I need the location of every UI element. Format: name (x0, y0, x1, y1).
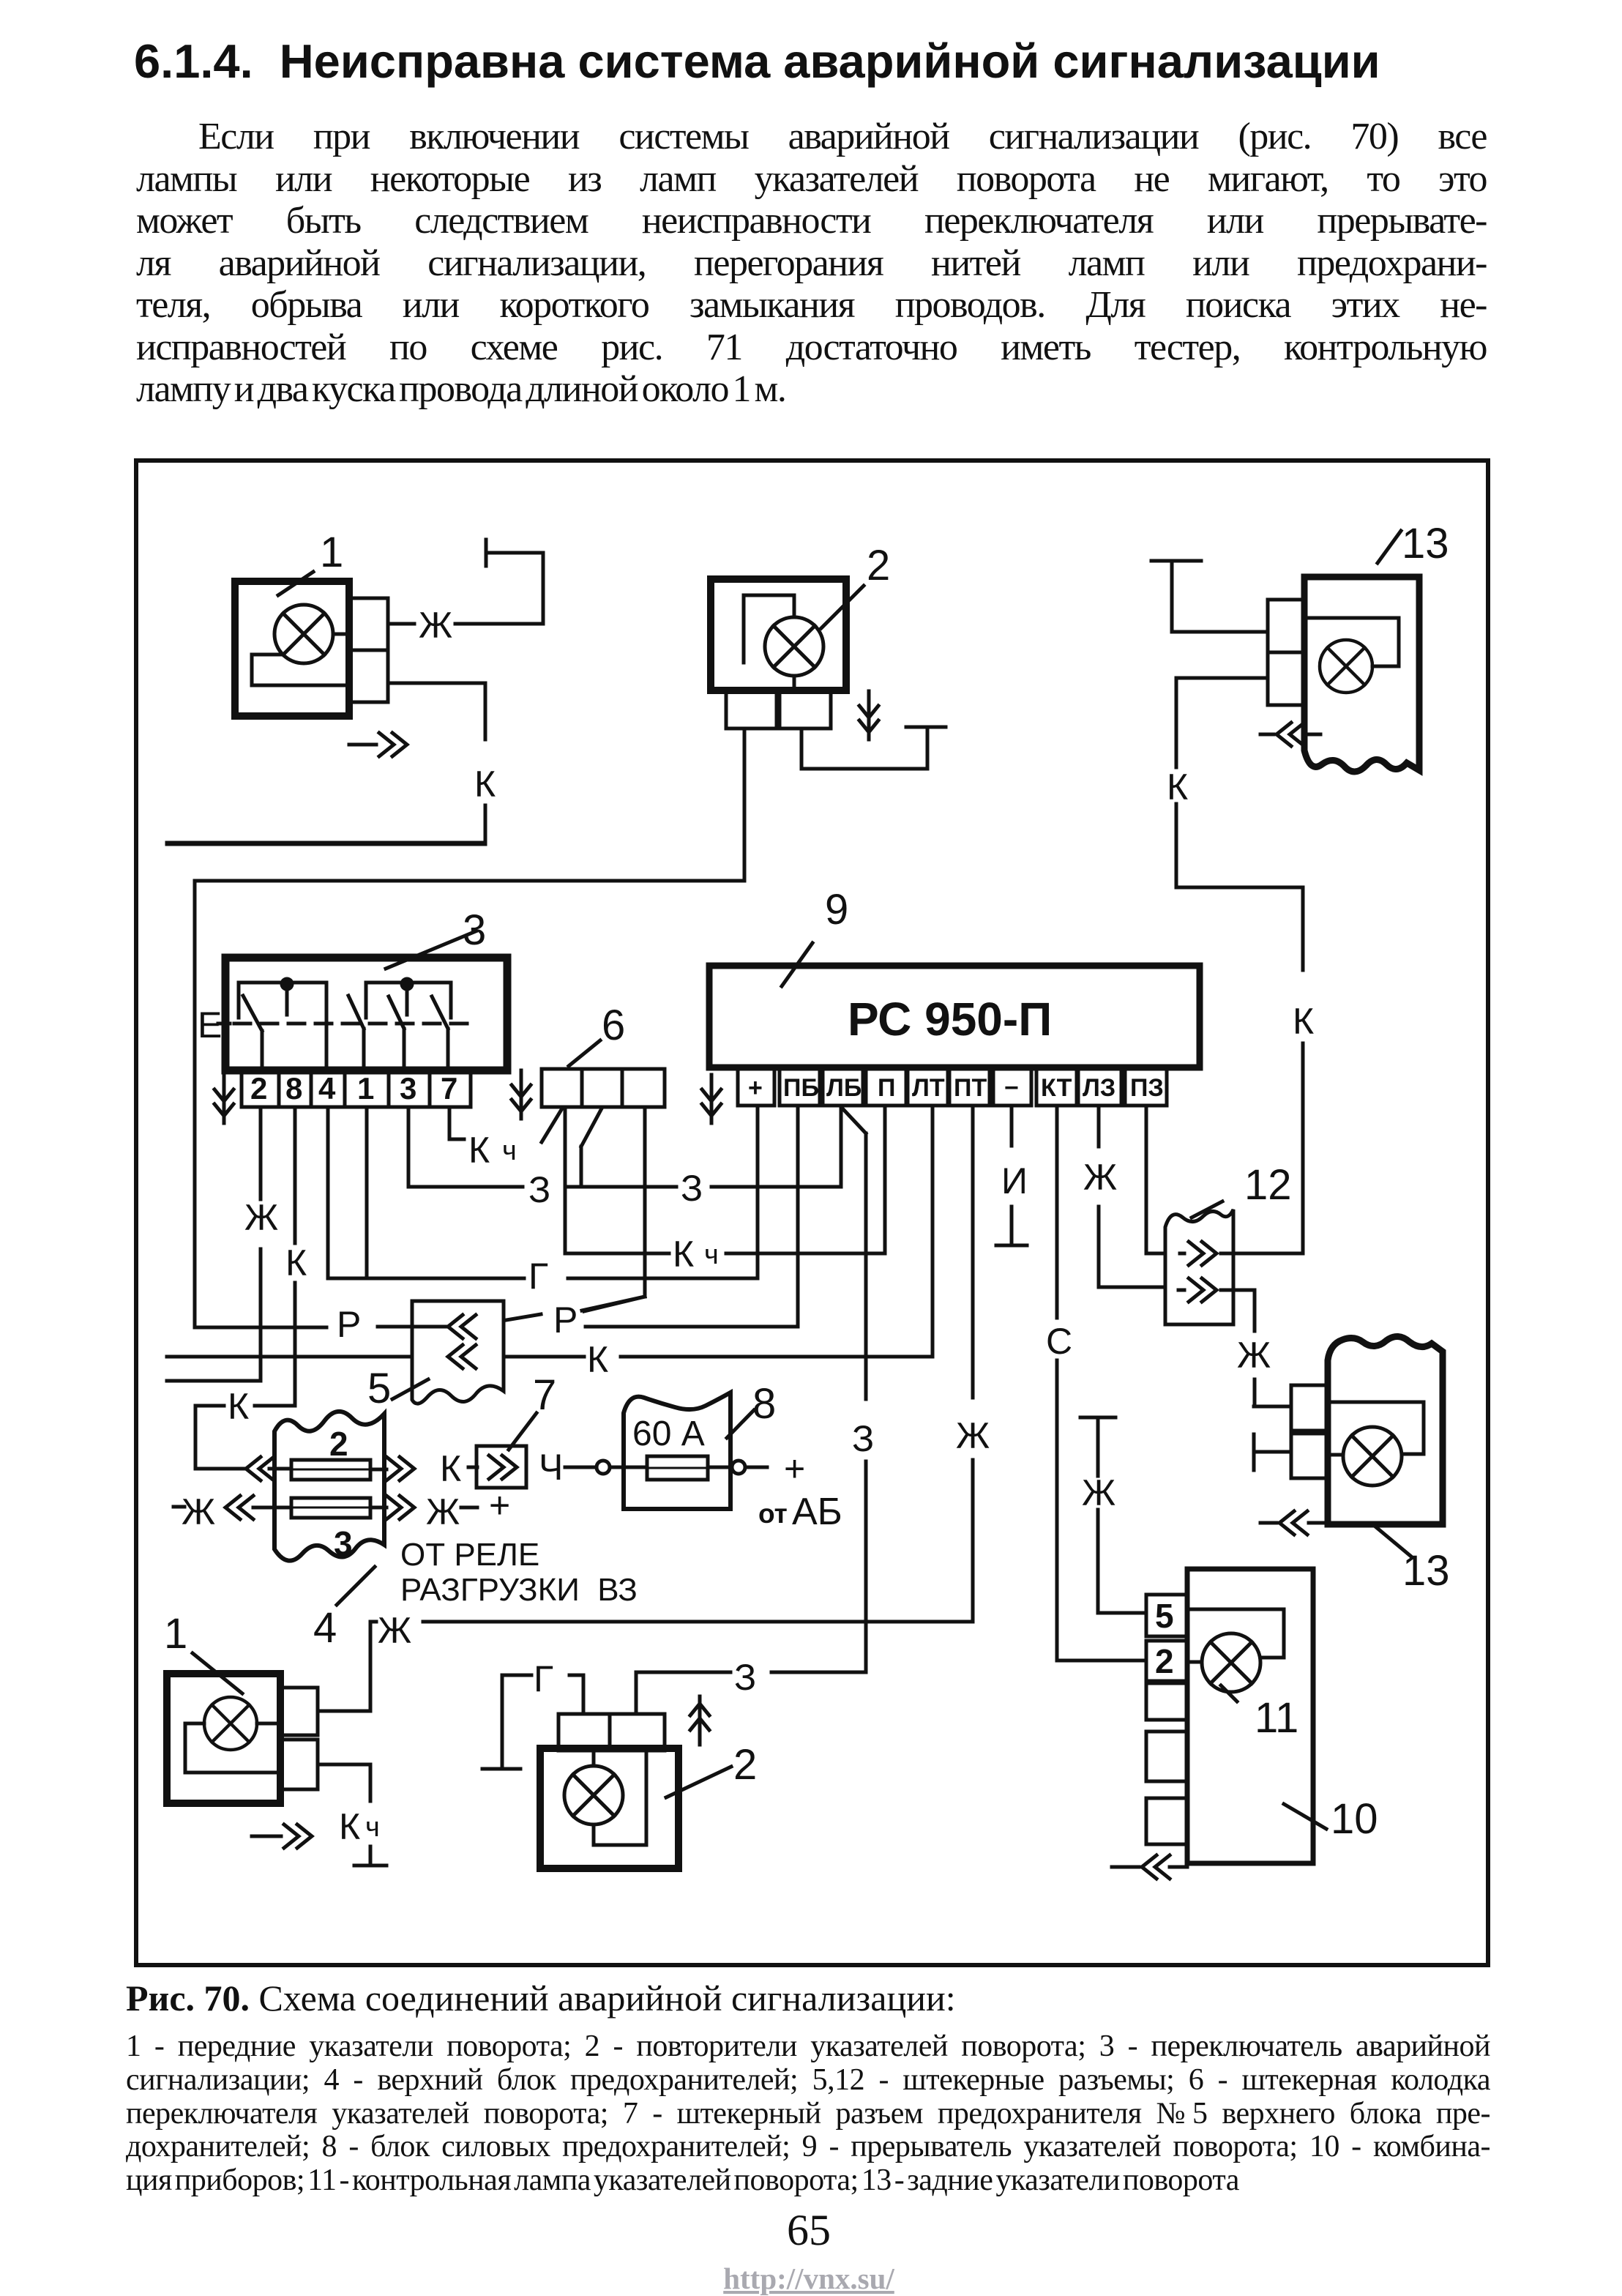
svg-text:З: З (852, 1418, 874, 1459)
svg-text:ОТ РЕЛЕ: ОТ РЕЛЕ (400, 1537, 539, 1573)
svg-text:−: − (1004, 1074, 1019, 1102)
svg-text:КТ: КТ (1041, 1074, 1072, 1102)
svg-text:4: 4 (313, 1604, 337, 1652)
svg-text:1: 1 (357, 1071, 374, 1106)
svg-text:ПЗ: ПЗ (1130, 1074, 1164, 1102)
svg-text:7: 7 (533, 1371, 556, 1419)
svg-text:К: К (1167, 767, 1188, 808)
svg-text:13: 13 (1402, 1547, 1450, 1595)
svg-text:13: 13 (1402, 520, 1449, 567)
svg-text:Ж: Ж (1083, 1157, 1117, 1198)
svg-text:К: К (474, 764, 496, 805)
svg-text:ЛЗ: ЛЗ (1083, 1074, 1115, 1102)
svg-text:К: К (587, 1339, 608, 1380)
svg-text:8: 8 (285, 1071, 302, 1106)
svg-text:С: С (1046, 1321, 1072, 1362)
svg-text:Ж: Ж (1237, 1335, 1271, 1376)
svg-text:5: 5 (1155, 1597, 1174, 1635)
svg-text:З: З (681, 1168, 703, 1209)
svg-text:от: от (758, 1499, 788, 1529)
svg-text:9: 9 (825, 886, 848, 933)
svg-text:Ж: Ж (378, 1610, 411, 1651)
svg-text:2: 2 (329, 1425, 348, 1463)
svg-text:12: 12 (1244, 1161, 1292, 1209)
svg-text:2: 2 (733, 1741, 757, 1789)
svg-text:К: К (285, 1242, 307, 1283)
svg-text:К: К (228, 1386, 249, 1427)
svg-text:3: 3 (400, 1071, 416, 1106)
svg-text:П: П (878, 1074, 895, 1102)
svg-text:Р: Р (337, 1304, 361, 1345)
svg-text:+: + (748, 1074, 763, 1102)
svg-text:ч: ч (704, 1240, 719, 1270)
svg-text:Г: Г (528, 1256, 548, 1297)
svg-text:Р: Р (553, 1300, 578, 1341)
svg-text:10: 10 (1331, 1795, 1378, 1843)
svg-text:Ж: Ж (956, 1415, 990, 1456)
svg-text:Ж: Ж (426, 1491, 460, 1532)
svg-text:Г: Г (534, 1658, 553, 1699)
svg-text:ч: ч (365, 1812, 380, 1843)
svg-text:2: 2 (250, 1071, 267, 1106)
svg-text:+: + (489, 1485, 510, 1526)
svg-text:РС 950-П: РС 950-П (848, 993, 1052, 1045)
svg-text:2: 2 (1155, 1642, 1174, 1680)
svg-text:АБ: АБ (792, 1491, 842, 1533)
svg-text:Ч: Ч (539, 1447, 563, 1488)
svg-text:Ж: Ж (1082, 1472, 1115, 1513)
svg-text:РАЗГРУЗКИ ВЗ: РАЗГРУЗКИ ВЗ (400, 1572, 638, 1608)
svg-text:З: З (528, 1169, 550, 1210)
svg-text:К: К (468, 1130, 490, 1171)
svg-text:ПБ: ПБ (783, 1074, 819, 1102)
svg-text:1: 1 (320, 529, 343, 576)
svg-text:ч: ч (502, 1136, 517, 1166)
svg-text:Ж: Ж (419, 605, 452, 646)
svg-text:1: 1 (164, 1610, 187, 1658)
svg-text:К: К (440, 1448, 461, 1489)
svg-text:И: И (1001, 1160, 1028, 1201)
svg-text:2: 2 (867, 542, 890, 589)
svg-text:К: К (1293, 1001, 1314, 1042)
svg-text:З: З (734, 1657, 756, 1698)
svg-text:Е: Е (198, 1004, 222, 1045)
svg-text:8: 8 (752, 1380, 776, 1428)
svg-text:6: 6 (602, 1002, 625, 1049)
svg-text:3: 3 (463, 906, 486, 954)
svg-text:ЛТ: ЛТ (912, 1074, 945, 1102)
svg-text:Ж: Ж (182, 1491, 215, 1532)
svg-text:7: 7 (441, 1071, 457, 1106)
svg-text:К: К (673, 1234, 694, 1275)
svg-text:+: + (784, 1448, 805, 1489)
svg-text:5: 5 (367, 1365, 391, 1412)
svg-text:11: 11 (1255, 1694, 1298, 1742)
svg-text:3: 3 (334, 1524, 353, 1562)
svg-text:Ж: Ж (244, 1197, 278, 1238)
svg-text:К: К (339, 1806, 360, 1847)
svg-text:60 А: 60 А (632, 1414, 705, 1453)
svg-text:ЛБ: ЛБ (826, 1074, 862, 1102)
svg-text:4: 4 (318, 1071, 336, 1106)
svg-text:ПТ: ПТ (954, 1074, 987, 1102)
